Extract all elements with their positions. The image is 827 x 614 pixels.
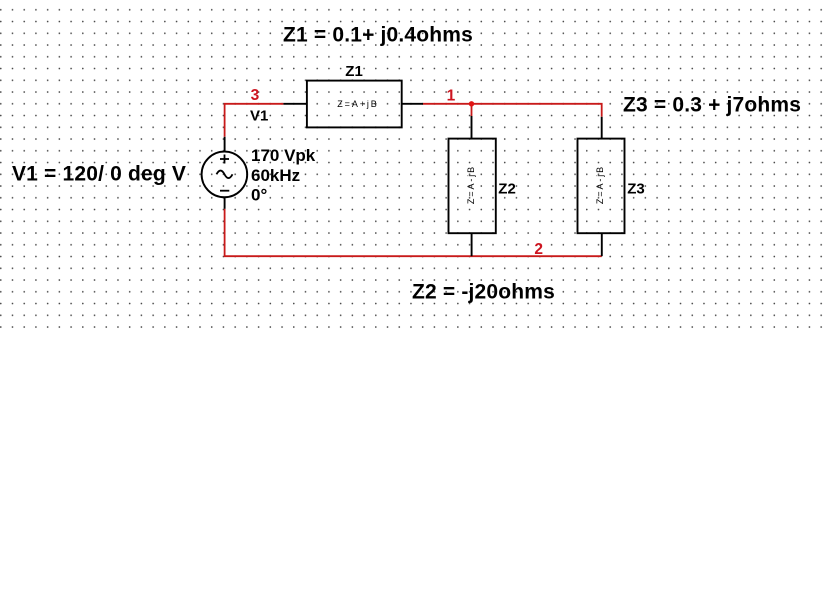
svg-text:Z1 = 0.1+ j0.4ohms: Z1 = 0.1+ j0.4ohms xyxy=(283,24,473,47)
svg-text:V1: V1 xyxy=(250,108,268,125)
svg-text:Z2 = -j20ohms: Z2 = -j20ohms xyxy=(412,281,555,304)
svg-text:Z1: Z1 xyxy=(345,63,363,80)
svg-text:Z=A-jB: Z=A-jB xyxy=(466,165,476,204)
svg-text:170 Vpk: 170 Vpk xyxy=(251,146,316,165)
svg-text:2: 2 xyxy=(534,241,543,258)
svg-text:Z=A-jB: Z=A-jB xyxy=(595,165,605,204)
svg-text:V1 = 120/ 0 deg V: V1 = 120/ 0 deg V xyxy=(12,163,186,186)
svg-text:Z3 = 0.3 + j7ohms: Z3 = 0.3 + j7ohms xyxy=(623,94,801,117)
svg-text:0°: 0° xyxy=(251,185,267,204)
svg-text:60kHz: 60kHz xyxy=(251,166,300,185)
svg-text:1: 1 xyxy=(447,88,456,105)
svg-text:Z=A+jB: Z=A+jB xyxy=(337,99,378,109)
svg-text:Z2: Z2 xyxy=(498,181,516,198)
svg-text:3: 3 xyxy=(251,87,260,104)
svg-text:Z3: Z3 xyxy=(627,181,645,198)
